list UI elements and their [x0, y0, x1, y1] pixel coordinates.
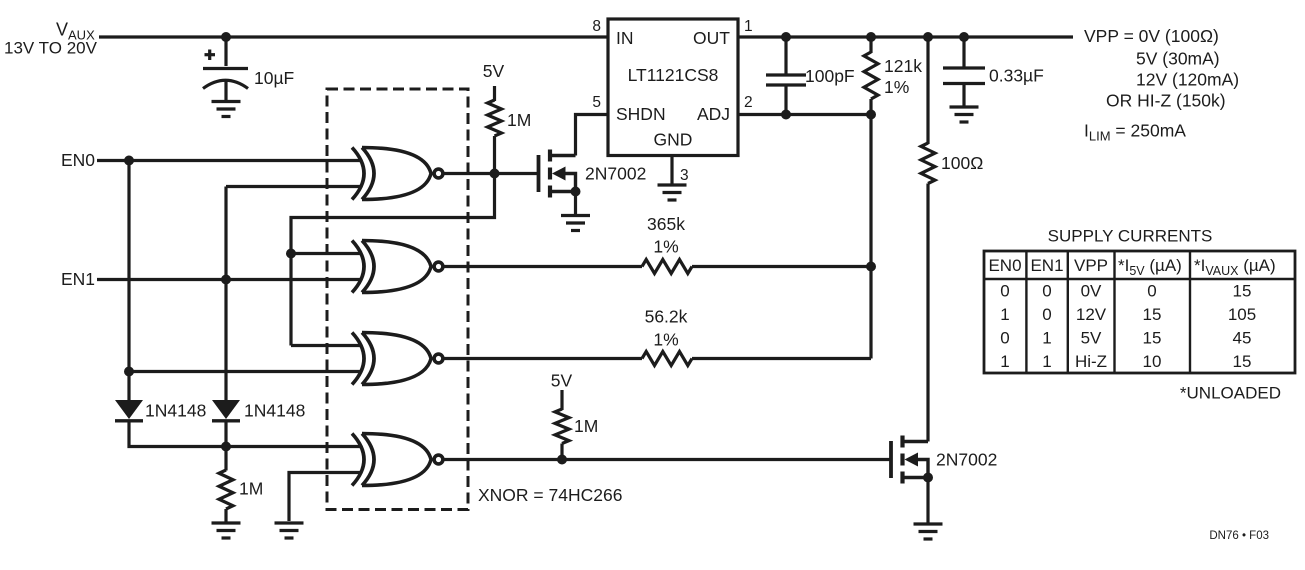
ground under pin 3	[658, 185, 687, 200]
label VPP output text	[1084, 26, 1239, 144]
dashed box XNOR package	[327, 89, 468, 510]
wire Q2 source to ground	[926, 478, 929, 524]
svg-text:10µF: 10µF	[254, 68, 294, 88]
svg-text:ADJ: ADJ	[697, 104, 730, 124]
wire pin 3 GND	[670, 156, 673, 185]
wire gate1 output to M1 gate	[444, 172, 539, 175]
svg-text:5V: 5V	[483, 61, 505, 81]
wire 1M to gate1 output	[493, 136, 496, 174]
wire feedback vertical from gate1 output	[291, 174, 495, 346]
svg-text:OUT: OUT	[693, 28, 730, 48]
svg-text:12V (120mA): 12V (120mA)	[1136, 70, 1239, 90]
node gate1 output / 1M / feedback junction	[490, 169, 500, 179]
svg-text:0V: 0V	[1081, 282, 1102, 301]
diode D2 1N4148	[212, 400, 240, 421]
node EN0 / gate3 input B junction	[124, 367, 134, 377]
capacitor C3 0.33uF	[943, 37, 1044, 106]
wire diode cathode rail to gate4 input A	[129, 421, 362, 447]
svg-text:ILIM = 250mA: ILIM = 250mA	[1084, 121, 1186, 144]
svg-text:1N4148: 1N4148	[145, 401, 206, 421]
svg-text:1: 1	[1000, 352, 1009, 371]
resistor R4 365k 1%	[642, 214, 692, 274]
wire Q1 source to ground	[574, 192, 577, 216]
svg-text:45: 45	[1233, 329, 1252, 348]
svg-text:1: 1	[1042, 352, 1051, 371]
node OUT/121k	[866, 32, 876, 42]
diode D1 1N4148	[115, 400, 143, 421]
svg-text:15: 15	[1143, 329, 1162, 348]
wire ADJ rail	[738, 113, 871, 116]
svg-text:VPP = 0V (100Ω): VPP = 0V (100Ω)	[1084, 26, 1219, 46]
capacitor C2 100pF	[766, 37, 855, 115]
resistor R3 100ohm	[921, 143, 983, 184]
svg-text:100Ω: 100Ω	[941, 153, 983, 173]
svg-text:5V (30mA): 5V (30mA)	[1136, 49, 1220, 69]
wire 100ohm to Q2 drain	[926, 184, 929, 442]
wire gate3 output	[444, 357, 643, 360]
svg-text:1: 1	[1042, 329, 1051, 348]
svg-text:GND: GND	[654, 130, 693, 150]
svg-text:EN1: EN1	[1030, 256, 1063, 275]
svg-text:*I5V (µA): *I5V (µA)	[1118, 256, 1182, 278]
svg-text:0: 0	[1000, 329, 1009, 348]
wire gate2 input A	[291, 252, 362, 255]
svg-text:0: 0	[1147, 282, 1156, 301]
wire top rail VAUX to IN pin	[99, 35, 608, 38]
wire 56.2k to ADJ vertical	[692, 357, 871, 360]
svg-text:1N4148: 1N4148	[244, 401, 305, 421]
svg-text:1: 1	[744, 18, 753, 35]
regulator U2 LT1121CS8	[608, 19, 738, 156]
wire Q1 drain to SHDN pin 5	[576, 115, 609, 156]
node ADJ/121k	[866, 110, 876, 120]
ground under 0.33uF	[950, 107, 979, 122]
ground under gate4 input B	[275, 523, 304, 538]
svg-text:VPP: VPP	[1074, 256, 1108, 275]
svg-text:1M: 1M	[239, 479, 263, 499]
svg-text:EN1: EN1	[61, 269, 95, 289]
svg-text:*UNLOADED: *UNLOADED	[1180, 384, 1281, 403]
wire EN1 to gate2 input B	[97, 278, 362, 281]
svg-text:SHDN: SHDN	[616, 104, 666, 124]
resistor R2 121k	[864, 37, 922, 115]
node ADJ/100pF	[781, 110, 791, 120]
xnor gate U1C	[352, 333, 443, 385]
svg-text:DN76 • F03: DN76 • F03	[1209, 530, 1269, 542]
resistor R6 1M	[219, 447, 263, 523]
xnor gate U1D	[352, 434, 443, 486]
svg-text:1: 1	[1000, 305, 1009, 324]
node top rail / 10uF junction	[221, 32, 231, 42]
node OUT/100pF	[781, 32, 791, 42]
wire 365k to ADJ node	[692, 265, 871, 268]
xnor gate U1B	[352, 241, 443, 293]
svg-text:100pF: 100pF	[805, 66, 855, 86]
node EN0 branch	[124, 156, 134, 166]
wire gate4 output to Q2 gate	[444, 458, 892, 461]
ground under Q1	[561, 216, 590, 231]
node feedback / gate2 input A	[286, 249, 296, 259]
svg-text:LT1121CS8: LT1121CS8	[628, 65, 719, 85]
svg-text:3: 3	[680, 167, 689, 184]
svg-text:1%: 1%	[884, 77, 909, 97]
label VAUX	[4, 20, 98, 58]
resistor R1 1M	[488, 100, 502, 136]
ground under Q2	[914, 524, 943, 539]
node D2 / 1M junction	[221, 442, 231, 452]
svg-text:13V TO 20V: 13V TO 20V	[4, 39, 98, 58]
svg-text:0.33µF: 0.33µF	[989, 66, 1044, 86]
node OUT/0.33uF	[959, 32, 969, 42]
svg-text:15: 15	[1233, 282, 1252, 301]
resistor R7 1M	[555, 409, 598, 444]
wire gate2 output	[444, 265, 643, 268]
wire gate1 input B vertical from EN1 down to diode D2	[224, 187, 227, 401]
node EN1 branch	[221, 275, 231, 285]
xnor gate U1A	[352, 148, 443, 200]
wire gate4 input B to ground	[289, 473, 362, 522]
svg-text:121k: 121k	[884, 56, 922, 76]
svg-text:56.2k: 56.2k	[645, 307, 688, 327]
svg-text:12V: 12V	[1076, 305, 1107, 324]
svg-text:5: 5	[592, 94, 601, 111]
wire gate3 input A	[291, 344, 362, 347]
svg-text:EN0: EN0	[988, 256, 1021, 275]
wire gate3 input B	[129, 370, 362, 373]
svg-text:2N7002: 2N7002	[585, 164, 646, 184]
svg-text:10: 10	[1143, 352, 1162, 371]
node gate4 output / 1M	[557, 455, 567, 465]
svg-text:IN: IN	[616, 28, 634, 48]
wire gate1 input B horizontal	[226, 185, 362, 188]
wire EN0 to gate1 input A	[97, 159, 362, 162]
svg-text:0: 0	[1042, 282, 1051, 301]
node 365k junction	[866, 262, 876, 272]
svg-text:365k: 365k	[647, 214, 685, 234]
ground under 10uF	[212, 102, 241, 117]
svg-text:105: 105	[1228, 305, 1256, 324]
capacitor C 10uF (polarized)	[203, 37, 294, 100]
svg-text:1M: 1M	[507, 110, 531, 130]
svg-text:1%: 1%	[653, 237, 678, 257]
table SUPPLY CURRENTS	[984, 227, 1295, 403]
svg-text:2N7002: 2N7002	[936, 450, 997, 470]
transistor Q2 2N7002	[891, 436, 933, 484]
svg-text:2: 2	[744, 94, 753, 111]
svg-text:XNOR = 74HC266: XNOR = 74HC266	[478, 485, 622, 505]
wire EN0 vertical down to diode D1	[127, 161, 130, 401]
svg-text:*IVAUX (µA): *IVAUX (µA)	[1194, 256, 1276, 278]
svg-text:OR HI-Z (150k): OR HI-Z (150k)	[1106, 91, 1226, 111]
svg-text:15: 15	[1233, 352, 1252, 371]
wire D2 cathode stub	[224, 421, 227, 447]
ground under R6	[212, 523, 241, 538]
wire OUT rail	[738, 35, 1073, 38]
svg-text:Hi-Z: Hi-Z	[1075, 352, 1107, 371]
svg-text:1%: 1%	[653, 330, 678, 350]
wire 5V stub	[493, 86, 496, 101]
wire 1M to gate4 output	[560, 444, 563, 460]
transistor Q1 2N7002	[539, 150, 581, 198]
svg-text:8: 8	[592, 18, 601, 35]
wire 5V stub to 1M	[560, 390, 563, 410]
wire ADJ vertical to feedback resistors	[869, 115, 872, 359]
svg-text:15: 15	[1143, 305, 1162, 324]
node OUT/100ohm	[923, 32, 933, 42]
svg-text:SUPPLY CURRENTS: SUPPLY CURRENTS	[1048, 227, 1213, 246]
svg-text:0: 0	[1042, 305, 1051, 324]
wire VPP vertical to Q2 drain	[926, 37, 929, 144]
resistor R5 56.2k 1%	[642, 307, 692, 366]
svg-text:1M: 1M	[574, 416, 598, 436]
svg-text:5V: 5V	[1081, 329, 1102, 348]
svg-text:EN0: EN0	[61, 150, 95, 170]
svg-text:5V: 5V	[551, 371, 573, 391]
svg-text:0: 0	[1000, 282, 1009, 301]
